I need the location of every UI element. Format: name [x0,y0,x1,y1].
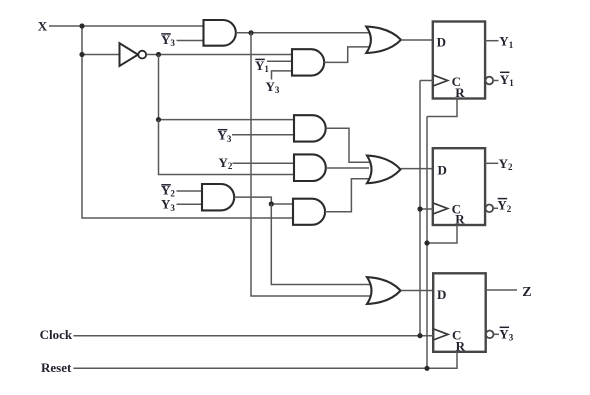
wire G6 output to OR2 bottom input [325,179,370,212]
wire Y3 to 3-input AND [272,71,293,80]
node junction reset at U2 [424,240,429,245]
wire O2 output to FF2 D [401,168,433,170]
wire Y3-bar to middle AND A [232,134,294,136]
wire U3 Qbar output [494,333,499,335]
flip-flop U3 box [433,273,486,352]
wire branch to middle AND A top input [159,119,295,121]
wire U1 Q output [485,40,499,42]
wire inverter output vertical down [158,55,160,120]
node junction X inverter branch [79,52,84,57]
OR gate O1 (feeds FF1 D) [366,27,401,53]
wire Clock line to U3 C [73,335,433,337]
svg-text:R: R [455,85,465,100]
clock triangle of U1 [433,75,448,86]
wire inverter output to 3-input AND top input [147,54,293,56]
node junction G1 output [248,30,253,35]
AND gate G4 middle B [294,154,326,181]
bubble U2 Qbar [486,205,494,213]
AND gate G2 3-input (X' . Y1bar . Y3) [292,49,324,75]
wire X to top AND gate [49,25,204,27]
clock triangle of U2 [433,203,448,214]
wire reset vertical bus [426,117,428,369]
inverter (NOT gate) [120,43,139,66]
wire Y2 to middle AND B [233,162,295,164]
svg-text:Y3: Y3 [161,197,175,213]
svg-text:D: D [438,163,447,178]
wire O1 output to FF1 D [401,39,433,41]
svg-text:R: R [455,212,465,227]
wire G1 output down to OR3 bottom input [251,33,370,296]
svg-text:R: R [456,339,466,354]
wire X branch to inverter [82,54,120,56]
svg-text:Reset: Reset [41,360,72,375]
node junction inverter output [156,52,161,57]
wire Y1-bar to 3-input AND [267,60,292,62]
wire G3 output to OR2 top input [326,128,370,162]
wire branch down to middle AND B bottom input [159,120,295,175]
flip-flop U1 box [433,22,485,99]
svg-text:Y3: Y3 [499,326,513,342]
wire G5 output stepping to AND G6 top input [234,197,293,204]
svg-text:Y1: Y1 [499,34,513,50]
bubble U3 Qbar [486,331,494,339]
wire G1 output to OR1 top input [236,32,369,34]
svg-text:Clock: Clock [40,327,73,342]
AND gate G3 middle A [294,115,326,141]
bubble U1 Qbar [486,77,494,85]
wire U2 Q output [485,162,498,164]
node junction clock at U2 [417,206,422,211]
wire G5 branch down to OR3 top input [271,204,370,285]
flip-flop U2 box [433,148,485,225]
svg-text:Y2: Y2 [497,198,511,214]
wire U2 clock feed [420,208,433,210]
wire Y2-bar to AND G5 [177,190,203,192]
OR gate O2 (feeds FF2 D) [367,156,401,184]
wire U1 reset down to reset bus [427,98,457,117]
clock triangle of U3 [433,329,448,340]
node junction at middle branch [156,117,161,122]
wire X vertical branch down to bottom AND input [82,26,293,218]
AND gate G6 bottom (G5 . X) [293,199,325,225]
wire U2 reset down to reset bus [427,225,457,243]
wire O3 output to FF3 D [401,290,434,292]
wire U1 Qbar output [493,80,498,82]
svg-text:Y1: Y1 [500,72,514,88]
wire U3 Q output Z [486,289,517,291]
svg-text:Y3: Y3 [266,79,280,95]
wire G4 output to OR2 middle input [326,167,369,169]
svg-text:Y1: Y1 [255,58,269,74]
AND gate G1 top (X . Y3bar) [204,20,236,46]
node junction reset bus bottom [424,366,429,371]
OR gate O3 (feeds FF3 D) [367,277,401,304]
svg-text:Y2: Y2 [499,156,513,172]
node junction clock bus bottom [417,333,422,338]
wire U2 Qbar output [494,207,498,209]
svg-text:Y2: Y2 [219,155,233,171]
wire Y3 to AND G5 [177,203,203,205]
wire Reset line [73,367,427,369]
wire Y3-bar to top AND [177,40,204,42]
svg-text:D: D [437,287,446,302]
wire clock vertical bus [419,81,421,336]
svg-text:Z: Z [522,285,531,300]
wire G2 output to OR1 bottom input [324,47,369,63]
node junction X top [79,23,84,28]
node junction G5 output branch [269,201,274,206]
AND gate G5 (Y2bar . Y3) [202,184,234,210]
svg-text:D: D [437,34,446,49]
svg-text:X: X [38,18,48,33]
wire U1 clock feed [420,80,433,82]
wire U3 reset down to reset line [427,352,457,368]
